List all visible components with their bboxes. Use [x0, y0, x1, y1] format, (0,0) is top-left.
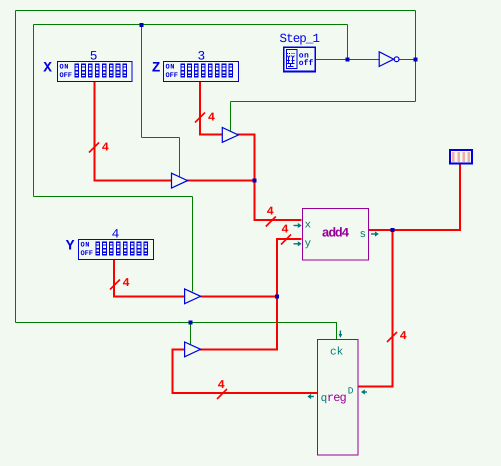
wire: net NSTEP right vertical x=415 [415, 11, 417, 102]
svg-text:y: y [305, 238, 312, 250]
svg-text:ON: ON [60, 64, 69, 72]
bus width label 4 (Y bus) [110, 276, 130, 290]
svg-text:4: 4 [112, 227, 120, 242]
svg-text:4: 4 [123, 276, 130, 290]
switch SW-Z (DIP 8) [164, 62, 239, 82]
wire: net STEP jog y=137 [142, 137, 180, 139]
wire: net STEP vertical riser at x=347 [347, 25, 349, 60]
bus width label 4 (X bus) [89, 140, 109, 154]
svg-text:ON: ON [166, 64, 175, 72]
bus wire: s junction down to qreg D input [358, 229, 392, 386]
junction: X/Z bus join at (254.6,180.6) [253, 179, 257, 183]
svg-text:X: X [43, 61, 52, 77]
svg-text:reg: reg [327, 391, 347, 405]
wire: net STEP horizontal y=197 [34, 196, 193, 198]
svg-text:add4: add4 [322, 226, 350, 241]
svg-text:OFF: OFF [81, 250, 94, 258]
junction: net NSTEP at (190,322) [189, 321, 193, 325]
register U3 qreg box [318, 340, 359, 456]
svg-text:4: 4 [218, 378, 225, 392]
wire: net STEP top horizontal y=25 [34, 24, 348, 26]
bus width label 4 (add4 y input bus) [281, 223, 291, 245]
svg-text:s: s [360, 229, 367, 241]
pin D of qreg [348, 386, 367, 397]
bus wire: add4 s output to display [369, 165, 461, 231]
bus wire: buffer B1 output to junction [187, 180, 256, 182]
wire: net STEP enable drop to buffer B1 [179, 138, 181, 177]
wire: net NSTEP horizontal y=101 [231, 101, 416, 103]
junction: s bus at (392.5,230) [391, 228, 395, 232]
wire: net NSTEP drop to qreg ck [336, 323, 338, 340]
tri-state buffer B3 (Y bus) [185, 289, 201, 304]
wire: net STEP vertical drop at x=141 [141, 25, 143, 138]
bus wire: junction up to add4 y input [277, 239, 302, 350]
junction: net NSTEP at inverter output (415,59) [414, 58, 418, 62]
svg-text:5: 5 [90, 49, 98, 64]
wire: net STEP left vertical x=33 [33, 25, 35, 197]
tri-state buffer B2 (Z bus) [222, 128, 238, 143]
wire: net NSTEP inverter output stub [399, 59, 416, 61]
wire: net NSTEP enable drop to buffer B2 [230, 102, 232, 133]
bus wire: qreg q output feedback to buffer B4 [173, 349, 318, 393]
wire: net NSTEP top horizontal y=10 [16, 10, 416, 12]
svg-text:ON: ON [81, 242, 90, 250]
svg-text:4: 4 [267, 205, 274, 219]
wire: net NSTEP enable drop to buffer B4 [190, 323, 192, 346]
svg-text:4: 4 [281, 223, 288, 237]
display DISP1 (bus LED) [450, 150, 472, 164]
bus wire: buffer B4 output [199, 348, 279, 350]
svg-text:OFF: OFF [166, 72, 179, 80]
pin q of qreg [307, 393, 327, 405]
bus wire: buffer B2 output down to add4 x input [237, 135, 302, 221]
svg-text:4: 4 [400, 329, 407, 343]
bus width label 4 (feedback bus) [217, 378, 227, 399]
pin s of add4 [360, 229, 379, 241]
svg-text:4: 4 [208, 110, 215, 124]
tri-state buffer B4 (feedback bus) [185, 342, 201, 357]
bus wire: buffer B3 output to junction [201, 295, 279, 297]
svg-text:Z: Z [152, 61, 161, 77]
svg-text:3: 3 [198, 49, 206, 64]
switch SW-Y (DIP 8) [79, 240, 154, 260]
wire: net STEP output of Step_1 to inverter input [316, 59, 380, 61]
svg-text:OFF: OFF [60, 72, 73, 80]
switch Step_1 (push switch) [284, 47, 315, 71]
junction: net STEP at (141,25) [140, 23, 144, 27]
bus width label 4 (qreg D bus) [387, 329, 407, 343]
pin x of add4 [294, 220, 312, 232]
adder U2 add4 box [303, 209, 369, 261]
pin y of add4 [294, 238, 312, 250]
svg-text:Step_1: Step_1 [280, 32, 321, 46]
bus wire: X switch output to buffer B1 [95, 82, 172, 181]
junction: net STEP at (347,59) [346, 58, 350, 62]
inverter U1 [379, 52, 399, 67]
bus width label 4 (Z bus) [195, 110, 215, 124]
switch SW-X (DIP 8) [58, 62, 133, 82]
bus wire: Z switch output to buffer B2 [200, 82, 222, 135]
svg-text:4: 4 [102, 140, 109, 154]
bus width label 4 (add4 x input bus) [266, 205, 276, 227]
tri-state buffer B1 (X bus) [172, 173, 188, 188]
pin ck of qreg [330, 331, 344, 359]
svg-text:x: x [305, 220, 312, 232]
bus wire: Y switch output to buffer B3 [114, 260, 185, 297]
svg-text:Y: Y [66, 239, 75, 255]
svg-text:ck: ck [330, 346, 344, 358]
wire: net NSTEP bottom horizontal y=322 [16, 322, 338, 324]
wire: net NSTEP left vertical x=15 [15, 11, 17, 323]
svg-text:off: off [299, 59, 314, 68]
junction: Y/loop bus join at (277,296.3) [275, 294, 279, 298]
svg-text:D: D [348, 386, 354, 397]
wire: net STEP enable drop to buffer B3 [192, 197, 194, 292]
